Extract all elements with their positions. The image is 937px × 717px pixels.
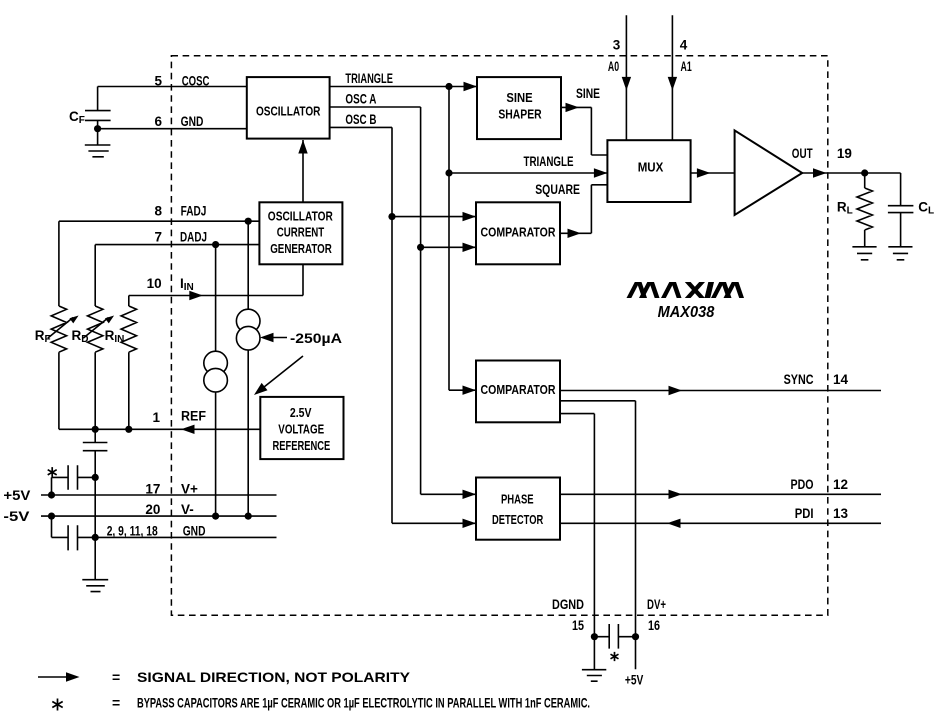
- svg-text:SIGNAL DIRECTION, NOT POLARITY: SIGNAL DIRECTION, NOT POLARITY: [137, 669, 411, 685]
- svg-text:=: =: [112, 669, 120, 685]
- svg-text:8: 8: [154, 203, 162, 218]
- svg-text:TRIANGLE: TRIANGLE: [345, 71, 393, 86]
- svg-text:DGND: DGND: [552, 597, 584, 612]
- svg-text:2, 9, 11, 18: 2, 9, 11, 18: [107, 524, 158, 539]
- svg-text:13: 13: [833, 506, 849, 521]
- svg-text:COSC: COSC: [182, 74, 210, 89]
- svg-text:7: 7: [154, 230, 162, 245]
- svg-text:OSC A: OSC A: [345, 92, 376, 107]
- svg-text:1: 1: [152, 410, 160, 425]
- svg-text:2.5V: 2.5V: [290, 405, 312, 420]
- svg-text:SYNC: SYNC: [784, 372, 814, 387]
- svg-text:PDI: PDI: [795, 506, 814, 521]
- svg-text:19: 19: [837, 146, 852, 161]
- svg-text:12: 12: [833, 477, 848, 492]
- svg-text:DV+: DV+: [647, 597, 666, 612]
- svg-text:+5V: +5V: [625, 673, 643, 688]
- svg-text:SQUARE: SQUARE: [535, 182, 580, 197]
- svg-text:GENERATOR: GENERATOR: [270, 241, 332, 256]
- svg-text:SINE: SINE: [506, 90, 533, 105]
- svg-text:PHASE: PHASE: [501, 491, 534, 506]
- svg-text:4: 4: [680, 38, 688, 53]
- svg-text:MUX: MUX: [638, 159, 664, 174]
- svg-text:OUT: OUT: [792, 146, 813, 161]
- svg-text:6: 6: [154, 114, 162, 129]
- svg-text:COMPARATOR: COMPARATOR: [481, 382, 556, 397]
- svg-text:OSCILLATOR: OSCILLATOR: [268, 209, 333, 224]
- svg-text:A1: A1: [681, 59, 693, 74]
- svg-text:15: 15: [572, 618, 584, 633]
- svg-text:10: 10: [147, 276, 162, 291]
- svg-text:COMPARATOR: COMPARATOR: [481, 224, 556, 239]
- svg-text:17: 17: [145, 482, 160, 497]
- svg-text:20: 20: [145, 502, 160, 517]
- svg-text:OSCILLATOR: OSCILLATOR: [256, 104, 321, 119]
- svg-text:5: 5: [154, 74, 162, 89]
- svg-text:-250µA: -250µA: [290, 331, 342, 346]
- svg-text:V+: V+: [181, 482, 198, 497]
- svg-text:SINE: SINE: [576, 86, 600, 101]
- svg-text:REFERENCE: REFERENCE: [273, 438, 331, 453]
- svg-text:SHAPER: SHAPER: [498, 106, 542, 121]
- svg-text:CURRENT: CURRENT: [277, 225, 325, 240]
- svg-text:BYPASS CAPACITORS ARE 1µF CERA: BYPASS CAPACITORS ARE 1µF CERAMIC OR 1µF…: [137, 695, 590, 711]
- svg-text:16: 16: [648, 618, 660, 633]
- svg-text:FADJ: FADJ: [181, 203, 207, 218]
- svg-text:GND: GND: [181, 114, 204, 129]
- svg-text:-5V: -5V: [3, 509, 29, 524]
- svg-text:GND: GND: [183, 524, 206, 539]
- svg-text:REF: REF: [181, 409, 206, 424]
- svg-text:DETECTOR: DETECTOR: [492, 512, 544, 527]
- svg-text:14: 14: [833, 372, 849, 387]
- svg-text:3: 3: [613, 38, 621, 53]
- svg-text:MAX038: MAX038: [658, 304, 715, 321]
- svg-text:OSC B: OSC B: [345, 112, 376, 127]
- svg-text:+5V: +5V: [3, 488, 30, 503]
- svg-text:TRIANGLE: TRIANGLE: [524, 154, 574, 169]
- svg-text:A0: A0: [608, 59, 619, 74]
- svg-text:DADJ: DADJ: [180, 230, 207, 245]
- svg-text:PDO: PDO: [791, 477, 814, 492]
- svg-text:VOLTAGE: VOLTAGE: [278, 421, 324, 436]
- svg-text:V-: V-: [181, 502, 194, 517]
- svg-text:=: =: [112, 695, 120, 711]
